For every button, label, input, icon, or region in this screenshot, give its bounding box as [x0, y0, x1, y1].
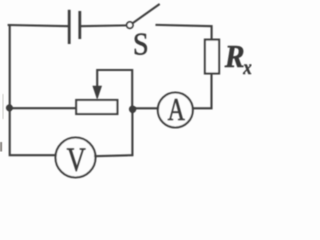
svg-text:A: A: [168, 93, 185, 128]
svg-text:x: x: [242, 57, 251, 80]
svg-text:S: S: [133, 26, 149, 62]
svg-text:V: V: [67, 140, 86, 178]
svg-text:R: R: [224, 38, 245, 74]
